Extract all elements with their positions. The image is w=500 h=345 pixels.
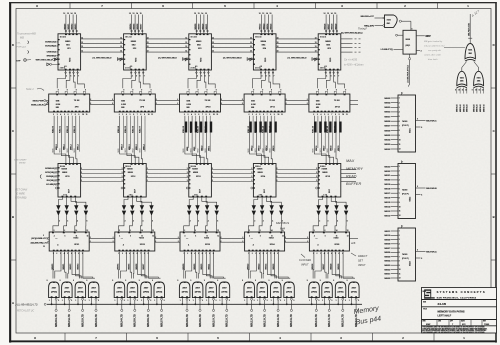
svg-text:74S08: 74S08 (321, 168, 328, 171)
title block fine print notes (422, 326, 487, 334)
title block drawing title (423, 309, 465, 318)
svg-text:MB00: MB00 (64, 23, 66, 30)
svg-text:MBL08-LTD: MBL08-LTD (187, 314, 189, 327)
wire funnels row1 to row2 buffers (57, 70, 344, 88)
svg-text:(3F30): (3F30) (311, 292, 317, 294)
svg-text:1: 1 (399, 231, 400, 233)
svg-text:DWG: DWG (423, 291, 426, 293)
svg-text:75 S8: 75 S8 (205, 100, 211, 102)
svg-text:B: B (493, 215, 495, 219)
handwritten diagonal label MB-PAR-ODD (470, 9, 480, 18)
handwritten note MCT channel to wire high MB (14, 159, 27, 200)
svg-text:3: 3 (212, 176, 213, 178)
svg-text:3: 3 (277, 176, 278, 178)
svg-text:12: 12 (399, 215, 401, 217)
svg-text:2: 2 (221, 237, 222, 239)
svg-text:KBL18: KBL18 (327, 125, 329, 133)
svg-text:12: 12 (194, 13, 196, 15)
svg-text:MB05: MB05 (129, 263, 131, 270)
svg-text:MB06: MB06 (384, 130, 391, 132)
svg-text:P44: P44 (280, 227, 285, 231)
svg-text:75 S8: 75 S8 (74, 100, 80, 102)
row1 left input signal labels (28, 41, 59, 62)
top zone strip ticks and numbers (36, 2, 469, 8)
svg-text:MB18: MB18 (331, 145, 333, 151)
svg-text:Bit: Bit (360, 32, 363, 35)
svg-text:MB18: MB18 (384, 189, 391, 191)
bottom zone strip ticks and numbers (34, 333, 465, 341)
svg-text:3: 3 (316, 176, 317, 178)
svg-text:2: 2 (156, 103, 157, 105)
svg-text:13: 13 (315, 46, 317, 48)
svg-text:1: 1 (322, 300, 323, 302)
svg-text:15: 15 (270, 13, 272, 15)
svg-text:(3F30): (3F30) (182, 292, 188, 294)
svg-text:MB15: MB15 (273, 263, 275, 270)
svg-text:MB01: MB01 (63, 263, 65, 270)
svg-text:12: 12 (129, 13, 131, 15)
svg-text:5: 5 (85, 300, 86, 302)
svg-text:2: 2 (178, 241, 179, 243)
svg-text:5: 5 (399, 116, 400, 118)
svg-text:9: 9 (85, 90, 86, 92)
svg-text:4 5: 4 5 (324, 65, 326, 68)
svg-text:MB09: MB09 (194, 263, 196, 270)
svg-text:RUB(B)(!): RUB(B)(!) (46, 176, 56, 178)
svg-text:2: 2 (399, 171, 400, 173)
svg-text:9: 9 (151, 90, 152, 92)
svg-text:13: 13 (327, 13, 329, 15)
svg-text:5: 5 (347, 221, 348, 223)
svg-text:3: 3 (187, 168, 188, 170)
svg-text:2: 2 (155, 237, 156, 239)
svg-text:MB00: MB00 (384, 98, 391, 100)
parity XOR gate U54 (457, 62, 467, 88)
driver gate G14 (2907 3F33) (86, 280, 99, 305)
svg-text:2F11: 2F11 (270, 107, 276, 109)
svg-text:2: 2 (242, 237, 243, 239)
svg-text:MBL0: MBL0 (56, 143, 58, 150)
svg-text:MB3: MB3 (270, 149, 272, 153)
svg-text:C: C (12, 129, 14, 133)
svg-text:8: 8 (399, 197, 400, 199)
svg-text:14: 14 (331, 12, 333, 15)
read buffer IC U33 (74S08 2F12) (186, 164, 211, 198)
svg-text:13: 13 (198, 13, 200, 15)
parity tree input wires with MB labels (455, 88, 485, 113)
register IC U12 (6B2 2F2) (120, 12, 146, 70)
svg-text:MBL01-LTD: MBL01-LTD (69, 314, 71, 327)
svg-text:MBL12-LTD: MBL12-LTD (252, 314, 254, 327)
svg-text:3: 3 (81, 176, 82, 178)
svg-text:15: 15 (205, 13, 207, 15)
svg-text:2: 2 (307, 241, 308, 243)
svg-text:MB gets loaded by: MB gets loaded by (424, 40, 443, 43)
svg-text:2: 2 (130, 230, 131, 232)
svg-text:2: 2 (254, 221, 255, 223)
svg-text:2F24: 2F24 (270, 243, 276, 246)
svg-text:1 8 6: 1 8 6 (194, 195, 198, 197)
svg-text:(3F30): (3F30) (324, 292, 330, 294)
svg-text:7: 7 (399, 126, 400, 128)
svg-text:MB15: MB15 (384, 202, 391, 204)
svg-text:MAX: MAX (346, 159, 355, 163)
svg-text:13: 13 (262, 13, 264, 15)
read buffer IC U34 (74S08 2F13) (251, 164, 276, 198)
svg-text:MB11: MB11 (206, 23, 208, 29)
svg-text:2: 2 (155, 241, 156, 243)
svg-text:MB14: MB14 (384, 205, 391, 208)
right zone strip ticks and letters (491, 43, 497, 305)
svg-text:(3F30): (3F30) (143, 292, 149, 294)
svg-text:9: 9 (327, 90, 328, 92)
svg-text:10: 10 (148, 114, 150, 116)
svg-text:SCR(1B)(!): SCR(1B)(!) (45, 172, 56, 174)
svg-text:MBL2: MBL2 (71, 143, 73, 150)
svg-text:2: 2 (59, 221, 60, 223)
svg-text:9: 9 (125, 280, 126, 282)
svg-text:3: 3 (212, 168, 213, 170)
svg-text:MB16: MB16 (312, 263, 314, 270)
svg-text:MB05: MB05 (134, 23, 136, 30)
svg-text:MB17: MB17 (384, 193, 391, 195)
svg-text:MB03-E: MB03-E (467, 104, 469, 112)
svg-text:MB64: MB64 (261, 40, 267, 43)
svg-text:3: 3 (316, 180, 317, 182)
svg-text:MB02-E: MB02-E (463, 104, 465, 112)
svg-text:MB28: MB28 (128, 172, 133, 174)
svg-text:5: 5 (152, 221, 153, 223)
svg-text:5: 5 (217, 221, 218, 223)
svg-text:REV: REV (483, 321, 486, 323)
svg-text:75 S8: 75 S8 (334, 100, 340, 102)
driver gate G23 (2907 3F32) (139, 280, 152, 305)
svg-text:9: 9 (253, 90, 254, 92)
svg-text:MB03: MB03 (78, 263, 80, 270)
svg-text:(5). WRT-REG-B(L)D: (5). WRT-REG-B(L)D (341, 32, 361, 34)
svg-text:MB08: MB08 (384, 244, 391, 246)
svg-text:13: 13 (147, 51, 149, 53)
svg-text:14: 14 (266, 12, 268, 15)
svg-text:74S3: 74S3 (269, 237, 275, 240)
svg-text:MB09: MB09 (199, 23, 201, 30)
svg-text:MDB-PWR: MDB-PWR (33, 100, 44, 102)
svg-text:13: 13 (347, 230, 349, 232)
svg-text:2: 2 (221, 99, 222, 101)
flip-flop U52 (9601 2E1) (381, 29, 431, 55)
svg-text:MB15: MB15 (273, 145, 275, 151)
svg-text:9: 9 (318, 90, 319, 92)
svg-text:Ca + in 4150: Ca + in 4150 (344, 59, 358, 62)
svg-text:74180: 74180 (402, 253, 407, 256)
svg-text:SIZE: SIZE (423, 302, 426, 304)
svg-text:2F10: 2F10 (206, 107, 212, 109)
svg-text:4 5: 4 5 (64, 65, 66, 68)
svg-text:MB16: MB16 (325, 23, 327, 30)
driver gate G13 (2907 3F32) (73, 280, 86, 305)
svg-text:3: 3 (133, 221, 134, 223)
svg-text:READ: READ (346, 175, 357, 179)
svg-text:1: 1 (244, 300, 245, 302)
latch IC U45 (74S3 2F24) (309, 229, 349, 255)
svg-text:74S08: 74S08 (61, 168, 68, 171)
svg-text:B: B (12, 215, 14, 219)
read buffer IC U35 (74S08 2F14) (316, 164, 341, 198)
svg-text:6: 6 (269, 76, 270, 78)
bus drop stubs with connector circles and MBL-LTD labels (55, 304, 98, 327)
svg-text:J-(L) MB+MB(D)-LTD: J-(L) MB+MB(D)-LTD (15, 304, 38, 307)
driver gate G52 (2907 3F31) (320, 280, 333, 305)
svg-text:14: 14 (71, 12, 73, 15)
svg-text:10: 10 (213, 114, 215, 116)
svg-text:5: 5 (201, 76, 202, 78)
register IC U15 (6B5 2F5) (315, 12, 341, 70)
svg-text:9: 9 (207, 90, 208, 92)
svg-text:(7). WRT-REG-9BLD: (7). WRT-REG-9BLD (288, 57, 307, 59)
svg-text:7: 7 (399, 193, 400, 195)
svg-text:to 4150 + 4(1)chan: to 4150 + 4(1)chan (344, 64, 364, 67)
svg-text:MBL3: MBL3 (78, 143, 80, 150)
svg-text:MBL06-LTD: MBL06-LTD (148, 314, 150, 327)
svg-text:MB02: MB02 (384, 112, 391, 114)
svg-text:MBL14-LTD: MBL14-LTD (277, 314, 280, 327)
svg-text:MB17: MB17 (328, 23, 330, 30)
svg-text:8/72: 8/72 (462, 324, 466, 326)
svg-text:MB14: MB14 (266, 23, 269, 30)
svg-text:MBL09-LTD: MBL09-LTD (200, 314, 202, 327)
svg-text:MB03: MB03 (75, 23, 77, 30)
svg-text:CRE1B(!): CRE1B(!) (47, 52, 57, 54)
svg-text:1: 1 (336, 300, 337, 302)
row1 WRT-REG-9BLD labels between columns (93, 57, 317, 60)
svg-text:MB12: MB12 (251, 145, 253, 151)
svg-text:5: 5 (98, 300, 99, 302)
svg-text:MB01: MB01 (384, 274, 391, 276)
svg-text:MB33: MB33 (384, 144, 391, 146)
svg-text:(3F30): (3F30) (117, 292, 123, 294)
svg-text:MB11: MB11 (208, 263, 210, 269)
svg-text:5: 5 (399, 248, 400, 250)
svg-text:11: 11 (479, 90, 481, 92)
svg-text:9: 9 (198, 90, 199, 92)
svg-text:1: 1 (271, 300, 272, 302)
svg-text:MB06-E: MB06-E (480, 104, 482, 112)
svg-text:7: 7 (402, 226, 403, 228)
svg-text:12: 12 (152, 236, 154, 238)
svg-text:MB06: MB06 (137, 23, 139, 30)
handwritten note MEM BUS P44 mid sheet (276, 221, 289, 231)
svg-text:KMP: KMP (426, 324, 431, 326)
wire down from U52 with LD-MB-PAR-STB label (407, 54, 411, 87)
svg-text:3: 3 (399, 239, 400, 241)
svg-text:13: 13 (133, 13, 135, 15)
wire fans row4 to output driver gates with MB labels (52, 252, 95, 279)
svg-text:9: 9 (177, 280, 178, 282)
svg-text:(P1.8 P): (P1.8 P) (402, 125, 409, 127)
svg-text:MB2: MB2 (327, 149, 329, 153)
svg-text:5: 5 (412, 29, 413, 31)
svg-text:9: 9 (67, 90, 68, 92)
handwritten pencil note left area Ca 4150 (344, 59, 364, 67)
handwritten note arrow near row2 (26, 87, 44, 91)
svg-text:DIRECT: DIRECT (358, 255, 368, 258)
svg-text:(3F30): (3F30) (351, 292, 357, 294)
driver gate G51 (2907 3F30) (307, 280, 320, 305)
svg-text:13: 13 (81, 37, 83, 39)
svg-text:9: 9 (320, 280, 321, 282)
svg-text:MB2: MB2 (198, 149, 200, 153)
svg-text:1 8 6: 1 8 6 (323, 195, 327, 197)
svg-text:3: 3 (251, 168, 252, 170)
svg-text:12: 12 (399, 149, 401, 151)
svg-text:9: 9 (112, 280, 113, 282)
svg-text:5: 5 (70, 76, 71, 78)
svg-text:4 5: 4 5 (195, 65, 197, 68)
svg-text:MB: MB (56, 107, 60, 109)
svg-text:9: 9 (271, 90, 272, 92)
svg-text:3: 3 (277, 180, 278, 182)
svg-text:MB1: MB1 (255, 149, 257, 153)
buffer IC U21 (75S8 2F8) (49, 90, 90, 117)
svg-text:MB63: MB63 (196, 41, 202, 43)
svg-text:w/6: w/6 (351, 241, 356, 245)
svg-text:74S08: 74S08 (192, 168, 199, 171)
svg-text:MB-RSU+LTC: MB-RSU+LTC (361, 16, 375, 18)
svg-text:12: 12 (399, 278, 401, 280)
svg-text:MB61: MB61 (65, 41, 71, 43)
svg-text:9: 9 (47, 280, 48, 282)
latch IC U42 (74S3 2F21) (115, 229, 155, 255)
svg-text:MB65: MB65 (325, 41, 331, 43)
svg-text:MB11: MB11 (209, 145, 211, 151)
svg-text:MB18: MB18 (332, 23, 334, 30)
svg-text:5: 5 (71, 300, 72, 302)
svg-text:9: 9 (269, 280, 270, 282)
svg-text:C: C (493, 129, 495, 133)
svg-text:3: 3 (316, 168, 317, 170)
svg-text:MB07: MB07 (384, 126, 391, 128)
handwritten note timing bit (358, 28, 367, 35)
driver gate G43 (2907 3F32) (269, 280, 282, 305)
svg-text:7: 7 (338, 76, 339, 78)
row3 left input labels (40, 168, 58, 187)
svg-text:RU(1B)(!): RU(1B)(!) (47, 180, 57, 182)
svg-text:MB62: MB62 (131, 41, 137, 43)
svg-text:24-1B: 24-1B (438, 302, 447, 306)
svg-text:MEMORY DATA PATHS: MEMORY DATA PATHS (438, 311, 465, 314)
driver gate G41 (2907 3F30) (242, 280, 255, 305)
svg-text:KBL00: KBL00 (52, 125, 54, 133)
svg-text:13: 13 (147, 37, 149, 39)
svg-text:MB17: MB17 (324, 145, 326, 151)
svg-text:MB02: MB02 (70, 263, 72, 270)
svg-text:MB03: MB03 (384, 107, 391, 109)
svg-text:MB01-E: MB01-E (460, 104, 462, 112)
row3 horizontal bus wires between ICs (81, 168, 319, 182)
svg-text:2: 2 (178, 237, 179, 239)
svg-text:MB12: MB12 (260, 23, 262, 30)
svg-text:2: 2 (319, 221, 320, 223)
svg-text:MB12: MB12 (384, 215, 391, 217)
svg-text:HIGH (MB): HIGH (MB) (15, 198, 27, 200)
svg-text:MB19: MB19 (335, 23, 337, 30)
svg-text:7: 7 (402, 162, 403, 164)
svg-text:11: 11 (151, 114, 153, 116)
svg-text:6: 6 (399, 189, 400, 191)
svg-text:2: 2 (286, 103, 287, 105)
svg-text:74S3: 74S3 (73, 237, 79, 240)
svg-text:74S1: 74S1 (476, 76, 480, 79)
svg-text:MB04: MB04 (384, 101, 391, 104)
svg-text:10: 10 (399, 139, 401, 141)
svg-text:12: 12 (282, 236, 284, 238)
row2 link wires between buffer ICs (90, 99, 309, 105)
svg-text:MB13: MB13 (259, 145, 261, 151)
svg-text:MB04: MB04 (117, 263, 120, 270)
handwritten bus label J-(L)MB+MB(D)-LTD (15, 303, 46, 312)
svg-text:13: 13 (120, 46, 122, 48)
svg-text:CHK: CHK (438, 321, 441, 323)
svg-text:MB06: MB06 (136, 263, 138, 270)
buffer IC U22 (75S8 2F9) (114, 90, 155, 117)
svg-text:5: 5 (189, 300, 190, 302)
svg-text:(3F30): (3F30) (208, 292, 214, 294)
handwritten pencil notes right of U52 (424, 40, 445, 61)
svg-text:(3F30): (3F30) (51, 292, 57, 294)
wire bundles row2 to row3 with KBL labels and bead marks (52, 116, 79, 164)
svg-text:MB16: MB16 (384, 198, 391, 200)
svg-text:1: 1 (399, 98, 400, 100)
svg-text:MB00-E: MB00-E (457, 104, 459, 112)
svg-text:(3F30): (3F30) (195, 292, 201, 294)
svg-text:7: 7 (399, 256, 400, 258)
svg-text:REG: REG (135, 57, 137, 62)
svg-text:MBL16-LTD: MBL16-LTD (316, 314, 318, 327)
svg-text:1 8 6: 1 8 6 (63, 195, 67, 197)
svg-text:MB01: MB01 (68, 23, 70, 30)
svg-text:MB05: MB05 (384, 256, 391, 258)
svg-text:(3F30): (3F30) (221, 292, 227, 294)
svg-text:2: 2 (113, 241, 114, 243)
svg-text:MB00: MB00 (52, 263, 54, 270)
svg-text:3: 3 (187, 180, 188, 182)
register IC U13 (6B3 2F3) (185, 12, 211, 70)
row1 horizontal bus wires between ICs (81, 37, 319, 52)
latch IC U41 (74S3 2F20) (49, 229, 89, 255)
svg-text:MB12: MB12 (247, 263, 249, 270)
svg-text:2: 2 (285, 237, 286, 239)
svg-text:MCT CHAN: MCT CHAN (15, 189, 27, 192)
svg-text:MB20: MB20 (384, 180, 391, 182)
svg-text:1: 1 (154, 300, 155, 302)
svg-text:3: 3 (54, 230, 55, 232)
svg-text:6.5M: 6.5M (121, 104, 126, 106)
svg-text:74S08: 74S08 (257, 168, 264, 171)
svg-text:KBL02: KBL02 (67, 125, 69, 133)
svg-text:MB08: MB08 (183, 263, 185, 270)
driver gate G54 (2907 3F33) (347, 280, 360, 305)
svg-text:(3F30): (3F30) (286, 292, 292, 294)
svg-text:3: 3 (316, 172, 317, 174)
svg-text:MB28: MB28 (62, 172, 67, 174)
svg-text:9: 9 (58, 90, 59, 92)
svg-text:2: 2 (242, 103, 243, 105)
svg-text:SUB CHART: SUB CHART (14, 159, 27, 162)
svg-text:1 8 6: 1 8 6 (259, 195, 263, 197)
svg-text:9: 9 (216, 90, 217, 92)
svg-text:9: 9 (132, 90, 133, 92)
svg-text:74S1: 74S1 (387, 18, 391, 21)
